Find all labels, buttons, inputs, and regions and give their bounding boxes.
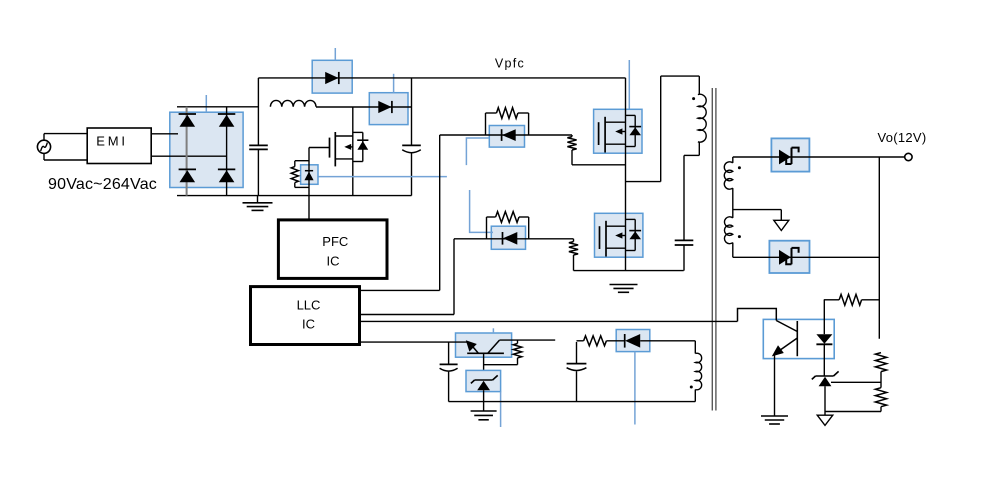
wire high gate line <box>440 134 572 136</box>
wire R9 to base node <box>484 364 518 366</box>
optocoupler U3 transistor <box>796 321 798 356</box>
svg-text:Vo(12V): Vo(12V) <box>877 130 926 145</box>
ground arrow (feedback) <box>817 415 833 425</box>
bridge diode D4 <box>218 168 235 170</box>
low-side MOSFET Q3 body diode <box>626 218 636 220</box>
aux cap C5 <box>567 363 587 365</box>
svg-text:LLC: LLC <box>297 298 321 313</box>
low-side MOSFET Q3 box <box>595 213 643 257</box>
high gate R2 parallel loop <box>485 113 487 135</box>
svg-text:IC: IC <box>327 253 340 268</box>
aux supply resistor R10 <box>577 340 584 342</box>
transformer T1 core <box>711 88 713 411</box>
center tap wire <box>733 209 782 211</box>
bridge diode D3 <box>179 168 196 170</box>
low-side MOSFET Q3 <box>599 226 601 249</box>
ground (opto emitter) <box>761 415 788 417</box>
svg-text:EMI: EMI <box>96 133 128 148</box>
gate drive line (blue) <box>318 176 447 178</box>
stub (blue) at D8 <box>466 138 488 165</box>
ground (Z2) <box>471 410 497 412</box>
stub (blue) at opto <box>492 328 494 333</box>
divider bottom wire <box>825 411 881 413</box>
svg-text:Vpfc: Vpfc <box>495 56 525 70</box>
resonant cap C3 <box>675 239 694 241</box>
stub (blue) at Z2 <box>500 392 502 427</box>
input cap C1 leads <box>257 78 259 145</box>
aux cap C5 leads <box>576 342 578 364</box>
low gate R4 parallel loop <box>486 217 488 239</box>
bulk cap C2 leads <box>411 78 413 145</box>
bridge bottom wire / negative rail <box>177 195 412 197</box>
bridge top wire <box>177 106 258 108</box>
divider R8 <box>875 388 886 407</box>
half-bridge vertical <box>625 78 627 271</box>
node stub above D5 <box>334 48 336 60</box>
PFC MOSFET Q1 drain lead <box>352 107 354 136</box>
node stub above bridge <box>205 95 207 112</box>
low gate diode D9 <box>502 232 504 245</box>
gate resistor R5 <box>573 239 575 242</box>
boost diode D6 box <box>369 93 408 125</box>
Q1 body diode <box>353 131 363 133</box>
PFC IC U1 <box>278 220 387 279</box>
divider node wire <box>831 381 881 383</box>
bypass diode D5 <box>325 72 338 84</box>
wire low gate line <box>454 238 574 240</box>
bridge left leg (gray) <box>186 107 188 196</box>
wire EMI to bridge bottom <box>151 155 226 157</box>
boost diode D6 <box>378 101 391 113</box>
high gate diode D8 box <box>489 126 524 148</box>
EMI filter block <box>87 128 151 164</box>
bridge rectifier BR1 box <box>170 112 243 187</box>
feedback bias resistor R6 <box>824 299 839 301</box>
wire LLC opto input <box>360 341 468 343</box>
rectifier D10 (schottky) <box>779 150 791 165</box>
resonant cap C3 leads <box>683 155 685 240</box>
ground (bridge) <box>257 196 259 203</box>
half-bridge source rail <box>574 270 684 272</box>
PFC gate clamp diode D7 <box>305 170 313 172</box>
bypass diode D5 box <box>312 60 352 93</box>
bridge diode D1 <box>179 113 196 115</box>
PFC gate clamp diode D7 box <box>301 165 318 185</box>
output wire upper <box>733 156 905 158</box>
transformer T1 primary <box>698 76 700 95</box>
divider R7 <box>875 353 886 372</box>
PFC MOSFET Q1 <box>309 147 330 149</box>
svg-text:90Vac~264Vac: 90Vac~264Vac <box>48 176 157 193</box>
high gate diode D8 <box>501 129 503 141</box>
T1 secondary lower <box>724 217 732 244</box>
bridge diode D2 <box>218 113 235 115</box>
wire gate node to PFC IC <box>308 148 310 220</box>
boost inductor L1 <box>270 100 316 106</box>
output terminal <box>905 153 912 160</box>
output join vertical <box>878 157 880 339</box>
high-side MOSFET Q2 <box>598 122 600 145</box>
AC source V1 <box>37 140 50 153</box>
rectifier D11 box <box>769 241 809 273</box>
T1 aux winding <box>694 341 696 354</box>
pullup resistor R9 <box>517 340 519 343</box>
wire R3 to source <box>572 164 626 166</box>
bulk cap C2 (polarized) <box>402 144 421 146</box>
LLC IC U2 <box>251 287 360 345</box>
high-side MOSFET Q2 box <box>594 109 642 153</box>
switch node wire <box>626 181 661 183</box>
stub (blue) at D12 <box>634 352 636 425</box>
node stub above D6 <box>393 74 395 93</box>
optocoupler U3 input box <box>456 333 512 357</box>
svg-text:IC: IC <box>302 316 315 331</box>
opto input transistor <box>467 352 504 354</box>
AC source V1 leads <box>44 133 87 135</box>
optocoupler U3 output box <box>763 319 834 358</box>
high-side MOSFET Q2 body diode <box>626 114 636 116</box>
low gate diode D9 box <box>491 226 525 249</box>
gate resistor R3 <box>571 135 573 137</box>
aux return wire <box>449 401 696 403</box>
svg-text:PFC: PFC <box>322 234 348 249</box>
shunt ref (zener) Z1 <box>816 375 834 377</box>
aux diode D12 <box>606 340 624 342</box>
wire EMI to bridge top <box>151 133 178 135</box>
soft start cap C4 leads <box>448 342 450 364</box>
output wire lower <box>733 256 880 258</box>
wire LLC feedback line <box>360 320 738 322</box>
PFC gate resistor R1 <box>295 160 309 162</box>
shunt ref Z2 <box>475 379 493 381</box>
T1 secondary upper <box>732 157 734 163</box>
wire inductor to bulk node <box>316 106 412 108</box>
Vpfc rail <box>258 77 625 79</box>
rectifier D10 box <box>771 138 809 171</box>
aux diode D12 box <box>616 330 650 352</box>
soft start cap C4 <box>440 363 458 365</box>
stub (blue) above Q2 <box>628 60 630 109</box>
ground (half-bridge) <box>610 284 638 286</box>
stub (blue) at D9 <box>470 190 493 232</box>
wire LLC lowside drive <box>360 314 455 316</box>
bridge right leg <box>226 107 228 196</box>
collector wire <box>499 339 555 341</box>
optocoupler U3 LED <box>823 300 825 334</box>
rectifier D11 (schottky) <box>779 250 791 265</box>
shunt ref (TL431) Z2 box <box>466 370 501 391</box>
input cap C1 <box>249 144 268 146</box>
ground arrow (center tap) <box>774 220 789 230</box>
wire LLC highside drive <box>360 289 440 291</box>
